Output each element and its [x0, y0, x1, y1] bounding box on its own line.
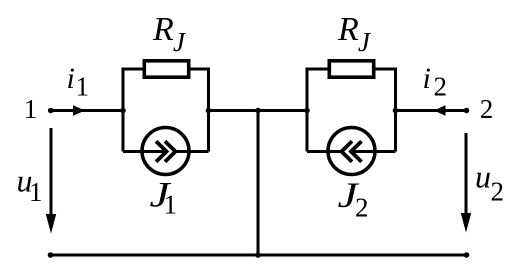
- center vertical wire: [257, 111, 260, 256]
- bottom terminal dot right: [464, 252, 470, 258]
- wire right block to port 2: [396, 109, 467, 112]
- wire from current source J1: [176, 150, 209, 153]
- svg-text:1: 1: [76, 72, 90, 102]
- right block right vertical wire: [394, 69, 397, 152]
- terminal dot node 1: [48, 108, 54, 114]
- voltage arrow u1 head: [46, 214, 56, 234]
- wire from resistor RJ left: [189, 68, 210, 71]
- wire from current source J2: [351, 150, 396, 153]
- voltage arrow u1 shaft: [50, 128, 53, 219]
- wire to resistor RJ right: [306, 68, 330, 71]
- voltage arrow u2 head: [461, 213, 471, 233]
- junction dot: [393, 108, 399, 114]
- wire to current source J2: [307, 150, 342, 153]
- right block left vertical wire: [306, 69, 309, 152]
- current source J2 circle: [328, 128, 375, 175]
- junction dot center: [255, 108, 261, 114]
- resistor RJ (left): [144, 61, 188, 77]
- svg-text:R: R: [152, 11, 174, 48]
- left block right vertical wire: [207, 69, 210, 152]
- svg-text:1: 1: [29, 177, 43, 207]
- wire to current source J1: [123, 150, 167, 153]
- wire port 1 to left block: [51, 109, 123, 112]
- wire left block to right block: [209, 109, 308, 112]
- current source J1 arrow chevron 2: [165, 141, 176, 161]
- svg-text:1: 1: [24, 94, 38, 124]
- svg-text:2: 2: [491, 177, 505, 207]
- bottom junction dot center: [255, 252, 261, 258]
- bottom terminal dot left: [48, 252, 54, 258]
- current arrow i2: [434, 105, 446, 116]
- current source J1 circle: [142, 128, 189, 175]
- svg-text:J: J: [358, 27, 372, 57]
- terminal dot node 2: [464, 108, 470, 114]
- svg-text:i: i: [423, 62, 431, 95]
- svg-text:R: R: [337, 11, 359, 48]
- wire to resistor RJ left: [122, 68, 145, 71]
- svg-text:2: 2: [355, 193, 369, 223]
- left block left vertical wire: [122, 69, 125, 152]
- svg-text:1: 1: [164, 190, 178, 220]
- voltage arrow u2 shaft: [465, 133, 468, 218]
- svg-text:i: i: [67, 62, 75, 95]
- bottom wire: [51, 254, 467, 257]
- junction dot: [206, 108, 212, 114]
- svg-text:u: u: [475, 159, 491, 195]
- current arrow i1: [73, 105, 85, 116]
- svg-text:2: 2: [480, 94, 494, 124]
- junction dot: [304, 108, 310, 114]
- wire from resistor RJ right: [374, 68, 397, 71]
- current source J2 arrow chevron 2: [351, 141, 362, 161]
- current source J1 arrow chevron 1: [156, 141, 167, 161]
- svg-text:J: J: [173, 27, 187, 57]
- current source J2 arrow chevron 1: [342, 141, 353, 161]
- resistor RJ (right): [329, 61, 373, 77]
- junction dot: [120, 108, 126, 114]
- svg-text:2: 2: [434, 72, 448, 102]
